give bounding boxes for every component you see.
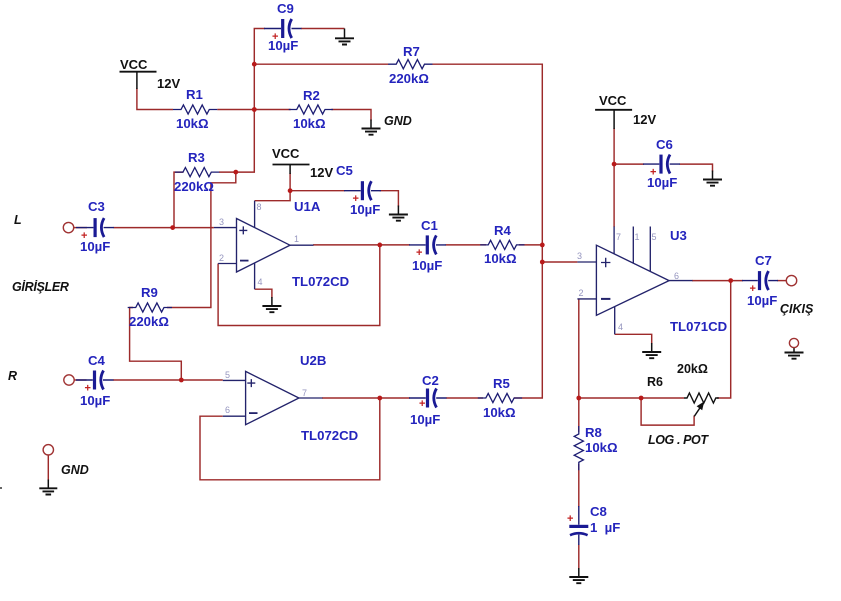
wire R3 right jog down to R9 bbox=[167, 172, 236, 307]
wire R terminal to C4 bbox=[74, 379, 86, 381]
wire L terminal to C3 bbox=[74, 227, 87, 229]
svg-text:TL072CD: TL072CD bbox=[292, 274, 349, 289]
ground (C6) bbox=[703, 171, 722, 186]
svg-text:+: + bbox=[567, 513, 573, 525]
pot wiper arrowhead bbox=[697, 402, 705, 411]
terminal CIKIS bbox=[786, 275, 796, 285]
wire C8 to ground bbox=[578, 545, 580, 569]
svg-text:C6: C6 bbox=[656, 137, 673, 152]
junction node bus R4 bbox=[540, 243, 545, 248]
wire C3 to U1A pin3 bbox=[114, 227, 214, 229]
wire R3 left lead down to L line bbox=[174, 172, 184, 228]
svg-text:C7: C7 bbox=[755, 253, 772, 268]
svg-text:L: L bbox=[14, 213, 22, 227]
svg-text:R7: R7 bbox=[403, 44, 420, 59]
svg-text:4: 4 bbox=[258, 277, 263, 287]
resistor R5 bbox=[478, 393, 522, 402]
wire R8 bottom to C8 bbox=[578, 464, 580, 507]
svg-text:10µF: 10µF bbox=[647, 175, 677, 190]
svg-text:220kΩ: 220kΩ bbox=[129, 314, 169, 329]
wire C7 to CIKIS terminal bbox=[777, 280, 786, 282]
svg-text:C4: C4 bbox=[88, 353, 106, 368]
svg-text:1: 1 bbox=[635, 232, 640, 242]
svg-text:7: 7 bbox=[302, 388, 307, 398]
wire VCC3 down to U3 pin7 bbox=[613, 128, 615, 227]
op-amp U3 bbox=[577, 227, 692, 335]
capacitor C9 bbox=[264, 19, 302, 38]
wire C9 right to ground bbox=[301, 28, 345, 30]
svg-text:GND: GND bbox=[61, 463, 89, 477]
ground (U1A pin4) bbox=[262, 297, 281, 312]
wire C5 to ground bbox=[380, 191, 399, 207]
svg-text:ÇIKIŞ: ÇIKIŞ bbox=[780, 302, 814, 316]
capacitor C2 bbox=[409, 389, 447, 408]
capacitor C6 bbox=[643, 155, 680, 174]
terminal GND bbox=[43, 445, 53, 455]
svg-text:U1A: U1A bbox=[294, 199, 321, 214]
svg-text:LOG . POT: LOG . POT bbox=[648, 433, 709, 447]
power VCC symbol 3 bbox=[595, 110, 632, 129]
wire U3 pin2 down to feedback node bbox=[578, 299, 580, 398]
svg-text:10µF: 10µF bbox=[412, 258, 442, 273]
svg-text:5: 5 bbox=[652, 232, 657, 242]
svg-text:TL071CD: TL071CD bbox=[670, 319, 727, 334]
wire U2B output to C2 bbox=[322, 397, 410, 399]
svg-text:R8: R8 bbox=[585, 425, 602, 440]
terminal R bbox=[64, 375, 74, 385]
wire R4 to bus bbox=[519, 244, 542, 246]
wire C2 to R5 bbox=[446, 397, 483, 399]
power VCC symbol 2 bbox=[273, 165, 310, 175]
svg-text:10kΩ: 10kΩ bbox=[484, 251, 517, 266]
junction node R3 right bbox=[233, 170, 238, 175]
svg-text:1: 1 bbox=[294, 234, 299, 244]
wire C1 to R4 bbox=[446, 244, 487, 246]
wire VCC1 to R1 bbox=[137, 88, 173, 110]
svg-text:VCC: VCC bbox=[120, 57, 148, 72]
svg-text:5: 5 bbox=[225, 370, 230, 380]
wire U1A feedback pin2 loop bbox=[218, 245, 380, 326]
terminal ground CIKIS bbox=[789, 338, 798, 347]
svg-text:12V: 12V bbox=[633, 112, 656, 127]
resistor R7 bbox=[388, 60, 432, 69]
wire U1A output to C1 bbox=[313, 244, 410, 246]
svg-text:U2B: U2B bbox=[300, 353, 326, 368]
ground (U3 pin4) bbox=[642, 343, 661, 358]
svg-text:12V: 12V bbox=[310, 165, 333, 180]
resistor R9 bbox=[128, 303, 172, 312]
svg-text:10kΩ: 10kΩ bbox=[293, 116, 326, 131]
svg-text:R2: R2 bbox=[303, 88, 320, 103]
svg-text:C1: C1 bbox=[421, 218, 438, 233]
wire R2 to ground bbox=[331, 110, 371, 121]
svg-text:R3: R3 bbox=[188, 150, 205, 165]
ground (C5) bbox=[389, 206, 408, 221]
junction node C9/R7 bbox=[252, 62, 257, 67]
wire U2B feedback pin6 loop bbox=[200, 398, 380, 480]
svg-text:220kΩ: 220kΩ bbox=[174, 179, 214, 194]
stray mark left edge bbox=[0, 487, 2, 489]
junction node U2B output bbox=[377, 396, 382, 401]
svg-text:VCC: VCC bbox=[599, 93, 627, 108]
svg-text:8: 8 bbox=[257, 202, 262, 212]
junction node wiper return bbox=[639, 396, 644, 401]
wire feedback node to pot left bbox=[579, 397, 684, 399]
wire C4 to U2B pin5 bbox=[113, 379, 223, 381]
wire U3 output down to pot right bbox=[717, 281, 731, 398]
svg-text:20kΩ: 20kΩ bbox=[677, 362, 708, 376]
svg-text:TL072CD: TL072CD bbox=[301, 428, 358, 443]
resistor R2 bbox=[289, 105, 333, 114]
svg-text:220kΩ: 220kΩ bbox=[389, 71, 429, 86]
svg-text:VCC: VCC bbox=[272, 146, 300, 161]
svg-text:R: R bbox=[8, 369, 17, 383]
ground (GND terminal) bbox=[39, 480, 57, 495]
ground (R2 GND) bbox=[362, 120, 381, 135]
wire R9 left lead down to R line bbox=[130, 308, 182, 381]
resistor R4 bbox=[480, 240, 524, 249]
junction node U3 output bbox=[728, 278, 733, 283]
wire VCC3 to C6 bbox=[614, 163, 644, 165]
wire VCC2 to C5 bbox=[290, 190, 345, 192]
junction node R input bbox=[179, 378, 184, 383]
wire U3 pin4 to ground bbox=[615, 334, 652, 344]
svg-text:U3: U3 bbox=[670, 228, 687, 243]
junction node R1/R2 bias bbox=[252, 107, 257, 112]
svg-text:2: 2 bbox=[579, 288, 584, 298]
op-amp U1A bbox=[214, 201, 314, 290]
svg-text:10kΩ: 10kΩ bbox=[483, 405, 516, 420]
svg-text:1 µF: 1 µF bbox=[590, 520, 620, 535]
svg-text:C3: C3 bbox=[88, 199, 105, 214]
svg-text:6: 6 bbox=[674, 271, 679, 281]
svg-text:+: + bbox=[419, 398, 425, 410]
svg-text:3: 3 bbox=[577, 251, 582, 261]
svg-text:12V: 12V bbox=[157, 76, 180, 91]
svg-text:10kΩ: 10kΩ bbox=[176, 116, 209, 131]
wire R7 right, bus down to R5 bbox=[433, 64, 543, 398]
wire R8 top lead bbox=[578, 398, 580, 432]
svg-text:10kΩ: 10kΩ bbox=[585, 440, 618, 455]
op-amp U2B bbox=[223, 371, 323, 424]
resistor R3 bbox=[175, 168, 219, 177]
svg-text:10µF: 10µF bbox=[747, 293, 777, 308]
capacitor C8 (vertical) bbox=[569, 506, 588, 545]
junction node L input bbox=[170, 225, 175, 230]
capacitor C3 bbox=[76, 218, 114, 237]
svg-text:C2: C2 bbox=[422, 373, 439, 388]
svg-text:6: 6 bbox=[225, 405, 230, 415]
junction node U1A output bbox=[377, 243, 382, 248]
resistor R1 bbox=[173, 105, 217, 114]
wire C6 to ground bbox=[680, 164, 713, 171]
svg-text:R6: R6 bbox=[647, 375, 663, 389]
svg-text:10µF: 10µF bbox=[80, 393, 110, 408]
resistor R8 bbox=[574, 426, 583, 470]
svg-text:R5: R5 bbox=[493, 376, 510, 391]
wire VCC2 down to U1A pin8 bbox=[255, 173, 291, 201]
svg-text:7: 7 bbox=[616, 232, 621, 242]
capacitor C7 bbox=[742, 271, 778, 290]
wire top run to R7 bbox=[254, 63, 388, 65]
potentiometer R6 bbox=[684, 393, 719, 416]
wire R1 to R2 bbox=[217, 109, 290, 111]
wire GND terminal stem bbox=[47, 455, 49, 481]
svg-text:GİRİŞLER: GİRİŞLER bbox=[12, 279, 69, 294]
svg-text:3: 3 bbox=[219, 217, 224, 227]
svg-text:10µF: 10µF bbox=[80, 239, 110, 254]
wire U3 output to C7 bbox=[692, 280, 743, 282]
ground (C9) bbox=[335, 29, 354, 45]
wire U1A pin4 to ground bbox=[255, 289, 272, 298]
ground (CIKIS) bbox=[785, 348, 804, 359]
svg-text:10µF: 10µF bbox=[268, 38, 298, 53]
junction node bus U3 pin3 bbox=[540, 260, 545, 265]
svg-text:R4: R4 bbox=[494, 223, 512, 238]
terminal L bbox=[63, 222, 73, 232]
svg-text:C5: C5 bbox=[336, 163, 353, 178]
svg-text:R9: R9 bbox=[141, 285, 158, 300]
svg-text:C8: C8 bbox=[590, 504, 607, 519]
svg-text:10µF: 10µF bbox=[410, 412, 440, 427]
junction node feedback R8 bbox=[576, 396, 581, 401]
svg-text:C9: C9 bbox=[277, 1, 294, 16]
svg-text:R1: R1 bbox=[186, 87, 203, 102]
junction node VCC3 bbox=[612, 162, 617, 167]
capacitor C1 bbox=[409, 235, 446, 254]
capacitor C4 bbox=[76, 371, 114, 390]
svg-text:GND: GND bbox=[384, 114, 412, 128]
junction node VCC2 bbox=[288, 188, 293, 193]
wire bus to U3 pin3 bbox=[542, 261, 577, 263]
ground (C8) bbox=[569, 568, 588, 583]
svg-text:2: 2 bbox=[219, 253, 224, 263]
capacitor C5 bbox=[344, 181, 381, 200]
svg-text:10µF: 10µF bbox=[350, 202, 380, 217]
wire C9 left lead to bias bus bbox=[236, 29, 265, 173]
svg-text:4: 4 bbox=[618, 322, 623, 332]
wire pot wiper return bbox=[641, 398, 694, 425]
power VCC symbol 1 bbox=[120, 72, 157, 89]
